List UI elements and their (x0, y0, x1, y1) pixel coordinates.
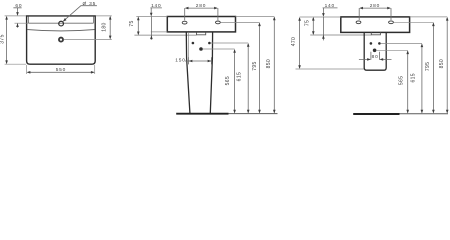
pedestal fixing dots (192, 42, 211, 51)
fixing hole left (182, 21, 187, 24)
svg-text:615: 615 (237, 72, 243, 81)
dim line 615 right (421, 45, 423, 113)
dim line 565 (234, 50, 236, 113)
basin front face (167, 17, 235, 32)
dim 140 label (325, 3, 335, 9)
svg-text:180: 180 (102, 22, 108, 31)
dim 180 label (102, 22, 108, 31)
tap hole (59, 21, 64, 26)
pedestal (186, 32, 212, 113)
fixing hole right (216, 21, 221, 24)
dim 80 label (372, 54, 379, 60)
dim line 850 right (446, 18, 448, 113)
dim line 795 (259, 24, 261, 113)
top edge extensions (300, 16, 448, 18)
dim 550 extension lines (27, 65, 95, 74)
D35 leader (64, 6, 97, 21)
svg-text:795: 795 (252, 61, 258, 70)
dim 550 line (28, 71, 94, 73)
dim 180 line (109, 17, 111, 38)
dim 75 line (312, 18, 314, 34)
svg-text:565: 565 (399, 76, 405, 85)
dim 550 label (56, 67, 66, 73)
drain boss tab (371, 32, 380, 34)
dim 140 line (323, 8, 338, 41)
470 bottom extension (296, 68, 365, 70)
pedestal inner shadow line (188, 33, 190, 58)
dim 150 label (175, 57, 185, 63)
svg-text:75: 75 (305, 20, 311, 26)
svg-text:615: 615 (410, 73, 416, 82)
top edge extensions (136, 16, 274, 18)
inner back rim line (28, 17, 93, 24)
svg-text:375: 375 (0, 34, 5, 43)
hole centre extension (394, 21, 434, 23)
dim 150 line (185, 57, 211, 64)
svg-text:75: 75 (129, 20, 135, 26)
basin outline (plan) (27, 16, 96, 64)
svg-text:470: 470 (291, 37, 297, 46)
dim 375 line (6, 17, 8, 63)
dim 280 label (196, 3, 206, 9)
svg-text:850: 850 (439, 59, 445, 68)
dim 140 label (151, 3, 161, 9)
leader 615 (381, 42, 422, 44)
svg-text:550: 550 (56, 67, 66, 73)
dim 375 extension lines (5, 16, 26, 64)
hole centre extension (220, 21, 259, 23)
dim line 615 (247, 44, 249, 113)
drain boss tab (197, 32, 206, 35)
dim 75 label (305, 20, 311, 26)
dim D35 label (82, 1, 96, 7)
dim 75 line (137, 18, 139, 35)
dim 60 line (13, 8, 21, 28)
dim 60 label (15, 3, 22, 9)
under-basin line (134, 34, 196, 36)
semi-pedestal (364, 33, 386, 71)
floor line right (353, 113, 399, 115)
dim 470 line (299, 18, 301, 68)
svg-text:150: 150 (175, 57, 185, 63)
basin front face (341, 17, 410, 33)
dim line 850 (273, 18, 275, 113)
floor line middle (176, 113, 228, 115)
dim 470 label (291, 37, 297, 46)
dim 280 line (185, 8, 218, 20)
fixing hole left (356, 21, 361, 24)
basin bottom left extension (151, 31, 168, 33)
leader 565 (203, 48, 235, 50)
svg-text:80: 80 (372, 54, 379, 60)
dim 75 label (129, 20, 135, 26)
svg-text:565: 565 (225, 76, 231, 85)
dim 180 extension lines (64, 16, 112, 40)
svg-text:850: 850 (266, 59, 272, 68)
leader 615 (211, 42, 249, 44)
dim 375 label (0, 34, 5, 43)
60 extension line at hole center (15, 22, 29, 24)
fixing hole right (389, 21, 394, 24)
dim 280 label (370, 3, 380, 9)
semi-pedestal fixing dots (370, 42, 381, 52)
drain hole (59, 38, 63, 42)
dim line 795 right (432, 23, 434, 112)
dim 280 line (359, 8, 391, 20)
under-basin line (310, 34, 371, 36)
dim line 565 right (407, 51, 409, 112)
leader 565 (376, 49, 408, 51)
dim 140 line (150, 8, 162, 40)
dim 80 lines (359, 52, 392, 60)
svg-text:795: 795 (425, 62, 431, 71)
bowl front curve (27, 30, 95, 31)
